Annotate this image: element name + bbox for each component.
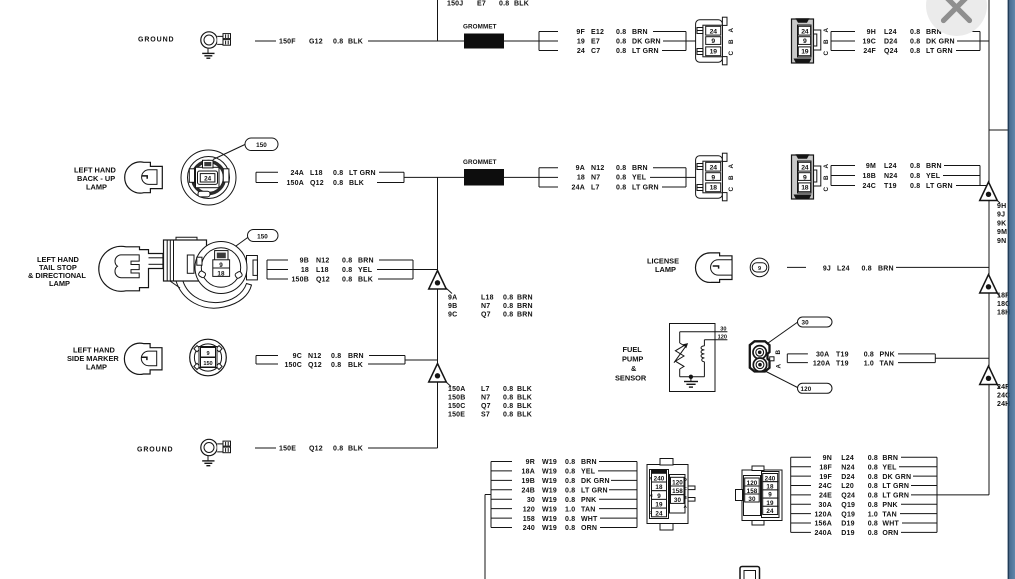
svg-text:9K: 9K xyxy=(997,220,1006,227)
svg-text:150C: 150C xyxy=(448,403,466,410)
svg-text:0.8: 0.8 xyxy=(616,29,626,36)
svg-text:LT GRN: LT GRN xyxy=(581,488,608,495)
svg-text:0.8: 0.8 xyxy=(565,497,575,504)
svg-text:D24: D24 xyxy=(884,39,897,46)
svg-text:0.8: 0.8 xyxy=(333,180,343,187)
svg-text:120A: 120A xyxy=(814,511,832,518)
svg-text:BLK: BLK xyxy=(517,403,532,410)
svg-text:30: 30 xyxy=(674,497,682,504)
svg-text:0.8: 0.8 xyxy=(331,362,341,369)
svg-text:0.8: 0.8 xyxy=(616,39,626,46)
svg-text:24B: 24B xyxy=(522,488,535,495)
svg-text:GROMMET: GROMMET xyxy=(463,24,497,31)
svg-text:T19: T19 xyxy=(836,352,849,359)
svg-text:L18: L18 xyxy=(310,170,323,177)
svg-text:BRN: BRN xyxy=(882,455,898,462)
svg-text:0.8: 0.8 xyxy=(616,185,626,192)
svg-text:BRN: BRN xyxy=(517,303,533,310)
svg-text:D19: D19 xyxy=(841,521,854,528)
svg-text:YEL: YEL xyxy=(358,267,373,274)
svg-text:18: 18 xyxy=(655,484,663,491)
svg-text:9C: 9C xyxy=(448,312,457,319)
svg-text:Q12: Q12 xyxy=(308,362,322,369)
svg-text:B: B xyxy=(823,175,830,180)
svg-text:1.0: 1.0 xyxy=(868,511,878,518)
svg-text:0.8: 0.8 xyxy=(868,464,878,471)
svg-text:Q7: Q7 xyxy=(481,312,491,319)
svg-text:150: 150 xyxy=(257,233,268,240)
svg-text:9H: 9H xyxy=(867,29,876,36)
svg-text:120: 120 xyxy=(747,480,758,487)
svg-text:BRN: BRN xyxy=(517,295,533,302)
svg-text:158: 158 xyxy=(523,516,535,523)
svg-text:W19: W19 xyxy=(542,478,557,485)
svg-text:BRN: BRN xyxy=(926,163,942,170)
svg-text:ORN: ORN xyxy=(581,525,597,532)
svg-text:19: 19 xyxy=(655,502,663,509)
svg-text:9: 9 xyxy=(711,174,715,181)
svg-text:E12: E12 xyxy=(591,29,604,36)
svg-text:W19: W19 xyxy=(542,459,557,466)
svg-text:YEL: YEL xyxy=(926,173,941,180)
svg-text:120A: 120A xyxy=(813,360,831,367)
svg-text:LAMP: LAMP xyxy=(655,265,676,274)
svg-text:0.8: 0.8 xyxy=(864,352,874,359)
svg-text:120: 120 xyxy=(672,480,683,487)
svg-text:24: 24 xyxy=(801,29,809,36)
svg-text:FUEL: FUEL xyxy=(623,345,643,354)
svg-text:150E: 150E xyxy=(279,446,296,453)
svg-text:18A: 18A xyxy=(522,469,535,476)
svg-text:0.8: 0.8 xyxy=(910,173,920,180)
svg-text:WHT: WHT xyxy=(581,516,598,523)
svg-text:150: 150 xyxy=(256,142,267,149)
svg-text:9R: 9R xyxy=(526,459,535,466)
svg-text:YEL: YEL xyxy=(581,469,596,476)
svg-text:0.8: 0.8 xyxy=(503,312,513,319)
svg-text:L7: L7 xyxy=(481,386,490,393)
svg-text:24: 24 xyxy=(801,165,809,172)
svg-text:C: C xyxy=(728,187,735,192)
svg-text:L7: L7 xyxy=(591,185,600,192)
svg-text:N12: N12 xyxy=(316,258,329,265)
svg-text:Q12: Q12 xyxy=(316,277,330,284)
svg-text:LT GRN: LT GRN xyxy=(926,183,953,190)
svg-text:18: 18 xyxy=(710,185,718,192)
svg-text:Q19: Q19 xyxy=(841,502,855,509)
svg-text:L24: L24 xyxy=(884,29,897,36)
svg-text:9: 9 xyxy=(219,262,223,269)
svg-text:9A: 9A xyxy=(576,165,585,172)
svg-text:D19: D19 xyxy=(841,530,854,537)
svg-text:156A: 156A xyxy=(814,521,832,528)
svg-text:9C: 9C xyxy=(293,353,302,360)
svg-text:W19: W19 xyxy=(542,506,557,513)
svg-text:0.8: 0.8 xyxy=(616,48,626,55)
svg-text:BRN: BRN xyxy=(632,165,648,172)
svg-text:24F: 24F xyxy=(863,48,876,55)
svg-text:150: 150 xyxy=(203,361,212,367)
svg-text:0.8: 0.8 xyxy=(333,170,343,177)
svg-text:0.8: 0.8 xyxy=(868,493,878,500)
svg-text:18: 18 xyxy=(801,185,809,192)
svg-text:N7: N7 xyxy=(481,395,490,402)
svg-text:WHT: WHT xyxy=(882,521,899,528)
svg-text:N12: N12 xyxy=(591,165,604,172)
svg-text:A: A xyxy=(823,28,830,33)
svg-text:SENSOR: SENSOR xyxy=(615,374,647,383)
svg-text:W19: W19 xyxy=(542,516,557,523)
svg-text:LT GRN: LT GRN xyxy=(632,185,659,192)
svg-text:19C: 19C xyxy=(863,39,876,46)
svg-text:0.8: 0.8 xyxy=(503,412,513,419)
svg-text:9: 9 xyxy=(711,38,715,45)
svg-text:9J: 9J xyxy=(997,212,1005,219)
svg-text:0.8: 0.8 xyxy=(333,39,343,46)
svg-text:240: 240 xyxy=(523,525,535,532)
svg-text:B: B xyxy=(775,350,782,355)
svg-text:LT GRN: LT GRN xyxy=(926,48,953,55)
svg-text:24: 24 xyxy=(710,29,718,36)
svg-text:0.8: 0.8 xyxy=(503,303,513,310)
svg-text:1.0: 1.0 xyxy=(864,360,874,367)
svg-text:9M: 9M xyxy=(866,163,876,170)
svg-text:YEL: YEL xyxy=(632,175,647,182)
svg-text:TAN: TAN xyxy=(882,511,896,518)
svg-text:19: 19 xyxy=(801,49,809,56)
svg-text:0.8: 0.8 xyxy=(342,267,352,274)
svg-text:9F: 9F xyxy=(576,29,585,36)
svg-text:24E: 24E xyxy=(819,493,832,500)
svg-text:0.8: 0.8 xyxy=(503,403,513,410)
svg-text:N24: N24 xyxy=(884,173,897,180)
svg-text:N12: N12 xyxy=(308,353,321,360)
svg-text:E7: E7 xyxy=(591,39,600,46)
svg-text:BLK: BLK xyxy=(348,446,363,453)
svg-text:18: 18 xyxy=(217,270,225,277)
svg-text:N24: N24 xyxy=(841,464,854,471)
svg-text:18B: 18B xyxy=(863,173,876,180)
svg-text:0.8: 0.8 xyxy=(862,266,872,273)
svg-text:0.8: 0.8 xyxy=(565,516,575,523)
svg-text:30A: 30A xyxy=(816,352,829,359)
svg-text:9: 9 xyxy=(206,351,209,357)
svg-text:9B: 9B xyxy=(300,258,309,265)
svg-text:0.8: 0.8 xyxy=(565,459,575,466)
svg-text:DK GRN: DK GRN xyxy=(632,39,661,46)
svg-text:TAN: TAN xyxy=(581,506,595,513)
svg-text:C: C xyxy=(728,51,735,56)
svg-text:158: 158 xyxy=(747,488,758,495)
svg-text:0.8: 0.8 xyxy=(868,483,878,490)
svg-text:J: J xyxy=(649,510,652,515)
svg-text:30: 30 xyxy=(527,497,535,504)
svg-text:L20: L20 xyxy=(841,483,854,490)
svg-text:A: A xyxy=(728,164,735,169)
svg-text:BLK: BLK xyxy=(348,39,363,46)
svg-text:Q19: Q19 xyxy=(841,511,855,518)
svg-text:LAMP: LAMP xyxy=(86,363,107,372)
svg-text:BLK: BLK xyxy=(348,362,363,369)
svg-text:BLK: BLK xyxy=(517,395,532,402)
svg-text:BRN: BRN xyxy=(348,353,364,360)
svg-text:L24: L24 xyxy=(884,163,897,170)
svg-text:BRN: BRN xyxy=(878,266,894,273)
svg-text:158: 158 xyxy=(672,488,683,495)
svg-text:C: C xyxy=(823,51,830,56)
svg-text:L24: L24 xyxy=(837,266,850,273)
svg-text:Q12: Q12 xyxy=(310,180,324,187)
svg-text:A: A xyxy=(776,364,783,369)
svg-text:9: 9 xyxy=(803,174,807,181)
svg-text:24A: 24A xyxy=(572,185,585,192)
svg-text:120: 120 xyxy=(801,386,812,393)
svg-text:LT GRN: LT GRN xyxy=(882,483,909,490)
svg-text:BLK: BLK xyxy=(358,277,373,284)
svg-text:Q12: Q12 xyxy=(309,446,323,453)
svg-text:19F: 19F xyxy=(819,474,832,481)
svg-text:DK GRN: DK GRN xyxy=(926,39,955,46)
svg-text:LT GRN: LT GRN xyxy=(632,48,659,55)
svg-text:9: 9 xyxy=(758,266,761,272)
svg-text:24: 24 xyxy=(766,508,774,515)
svg-text:T19: T19 xyxy=(836,360,849,367)
svg-text:0.8: 0.8 xyxy=(868,455,878,462)
svg-text:0.8: 0.8 xyxy=(333,446,343,453)
svg-text:LT GRN: LT GRN xyxy=(882,493,909,500)
svg-text:BRN: BRN xyxy=(632,29,648,36)
svg-text:GROUND: GROUND xyxy=(137,447,174,454)
svg-text:BRN: BRN xyxy=(517,312,533,319)
svg-text:S7: S7 xyxy=(481,412,490,419)
svg-text:BLK: BLK xyxy=(517,412,532,419)
svg-text:A: A xyxy=(728,28,735,33)
svg-text:PNK: PNK xyxy=(882,502,897,509)
svg-text:18: 18 xyxy=(577,175,585,182)
svg-text:L18: L18 xyxy=(316,267,329,274)
svg-text:0.8: 0.8 xyxy=(910,39,920,46)
svg-text:PUMP: PUMP xyxy=(622,355,643,364)
svg-text:0.8: 0.8 xyxy=(331,353,341,360)
svg-text:9: 9 xyxy=(803,38,807,45)
svg-text:120: 120 xyxy=(523,506,535,513)
svg-text:1.0: 1.0 xyxy=(565,506,575,513)
svg-text:ORN: ORN xyxy=(882,530,898,537)
svg-text:YEL: YEL xyxy=(882,464,897,471)
svg-text:0.8: 0.8 xyxy=(910,48,920,55)
svg-text:9J: 9J xyxy=(823,266,831,273)
svg-text:9N: 9N xyxy=(997,238,1006,245)
svg-text:Q7: Q7 xyxy=(481,403,491,410)
svg-text:PNK: PNK xyxy=(581,497,596,504)
svg-text:BLK: BLK xyxy=(349,180,364,187)
svg-text:0.8: 0.8 xyxy=(868,474,878,481)
svg-text:30: 30 xyxy=(802,320,810,327)
svg-text:30: 30 xyxy=(720,327,726,333)
svg-text:0.8: 0.8 xyxy=(342,277,352,284)
svg-text:TAN: TAN xyxy=(880,360,894,367)
svg-text:150A: 150A xyxy=(286,180,304,187)
svg-text:18: 18 xyxy=(766,484,774,491)
svg-text:A: A xyxy=(823,164,830,169)
svg-text:9: 9 xyxy=(657,493,661,500)
svg-text:24: 24 xyxy=(577,48,585,55)
svg-text:BRN: BRN xyxy=(581,459,597,466)
svg-text:0.8: 0.8 xyxy=(565,488,575,495)
svg-text:24: 24 xyxy=(655,510,663,517)
svg-text:0.8: 0.8 xyxy=(910,183,920,190)
svg-text:Q24: Q24 xyxy=(841,493,855,500)
svg-text:BRN: BRN xyxy=(358,258,374,265)
svg-text:N7: N7 xyxy=(591,175,600,182)
svg-text:150J: 150J xyxy=(447,1,463,8)
svg-text:N7: N7 xyxy=(481,303,490,310)
svg-text:30: 30 xyxy=(748,496,756,503)
svg-text:W19: W19 xyxy=(542,497,557,504)
svg-text:B: B xyxy=(728,175,735,180)
svg-text:0.8: 0.8 xyxy=(868,521,878,528)
svg-text:LT GRN: LT GRN xyxy=(349,170,376,177)
svg-text:C: C xyxy=(823,187,830,192)
svg-text:LAMP: LAMP xyxy=(49,279,70,288)
svg-text:150B: 150B xyxy=(448,395,466,402)
svg-text:24: 24 xyxy=(204,176,212,183)
svg-text:0.8: 0.8 xyxy=(499,1,509,8)
svg-text:L18: L18 xyxy=(481,295,494,302)
svg-text:0.8: 0.8 xyxy=(868,502,878,509)
svg-text:L24: L24 xyxy=(841,455,854,462)
svg-text:19: 19 xyxy=(710,49,718,56)
svg-text:LAMP: LAMP xyxy=(86,183,107,192)
svg-text:0.8: 0.8 xyxy=(616,165,626,172)
svg-text:0.8: 0.8 xyxy=(910,29,920,36)
svg-text:0.8: 0.8 xyxy=(868,530,878,537)
svg-text:9H: 9H xyxy=(997,203,1006,210)
svg-text:E7: E7 xyxy=(477,1,486,8)
svg-text:W19: W19 xyxy=(542,525,557,532)
svg-text:0.8: 0.8 xyxy=(342,258,352,265)
svg-text:120: 120 xyxy=(718,335,727,341)
svg-text:150C: 150C xyxy=(284,362,302,369)
svg-text:GROUND: GROUND xyxy=(138,37,175,44)
svg-text:0.8: 0.8 xyxy=(503,395,513,402)
svg-text:9B: 9B xyxy=(448,303,457,310)
svg-text:0.8: 0.8 xyxy=(565,478,575,485)
svg-text:150E: 150E xyxy=(448,412,465,419)
svg-text:W19: W19 xyxy=(542,469,557,476)
svg-text:9A: 9A xyxy=(448,295,457,302)
svg-text:19: 19 xyxy=(577,39,585,46)
svg-text:DK GRN: DK GRN xyxy=(882,474,911,481)
svg-text:9: 9 xyxy=(768,492,772,499)
svg-text:150B: 150B xyxy=(291,277,309,284)
svg-text:24C: 24C xyxy=(819,483,832,490)
svg-text:0.8: 0.8 xyxy=(616,175,626,182)
svg-text:240: 240 xyxy=(654,476,665,483)
svg-text:24: 24 xyxy=(710,165,718,172)
svg-text:9M: 9M xyxy=(997,229,1007,236)
svg-text:240A: 240A xyxy=(814,530,832,537)
svg-text:0.8: 0.8 xyxy=(565,525,575,532)
svg-text:0.8: 0.8 xyxy=(565,469,575,476)
svg-text:19B: 19B xyxy=(522,478,535,485)
svg-text:DK GRN: DK GRN xyxy=(581,478,610,485)
svg-text:24C: 24C xyxy=(863,183,876,190)
svg-text:150A: 150A xyxy=(448,386,466,393)
svg-text:18: 18 xyxy=(301,267,309,274)
svg-text:PNK: PNK xyxy=(880,352,895,359)
svg-text:BLK: BLK xyxy=(517,386,532,393)
svg-text:150F: 150F xyxy=(279,39,296,46)
svg-text:D24: D24 xyxy=(841,474,854,481)
svg-text:0.8: 0.8 xyxy=(503,295,513,302)
svg-text:Q24: Q24 xyxy=(884,48,898,55)
svg-text:19: 19 xyxy=(766,500,774,507)
svg-text:0.8: 0.8 xyxy=(503,386,513,393)
svg-text:0.8: 0.8 xyxy=(910,163,920,170)
svg-text:9N: 9N xyxy=(823,455,832,462)
svg-text:F: F xyxy=(649,476,652,481)
svg-text:240: 240 xyxy=(765,475,776,482)
svg-text:B: B xyxy=(728,39,735,44)
svg-text:C7: C7 xyxy=(591,48,600,55)
svg-text:W19: W19 xyxy=(542,488,557,495)
svg-text:BLK: BLK xyxy=(514,1,529,8)
svg-text:30A: 30A xyxy=(819,502,832,509)
svg-text:G12: G12 xyxy=(309,39,323,46)
svg-text:T19: T19 xyxy=(884,183,897,190)
svg-text:24A: 24A xyxy=(291,170,304,177)
svg-text:18F: 18F xyxy=(819,464,832,471)
svg-text:&: & xyxy=(631,364,637,373)
svg-text:B: B xyxy=(823,39,830,44)
svg-text:GROMMET: GROMMET xyxy=(463,159,497,166)
